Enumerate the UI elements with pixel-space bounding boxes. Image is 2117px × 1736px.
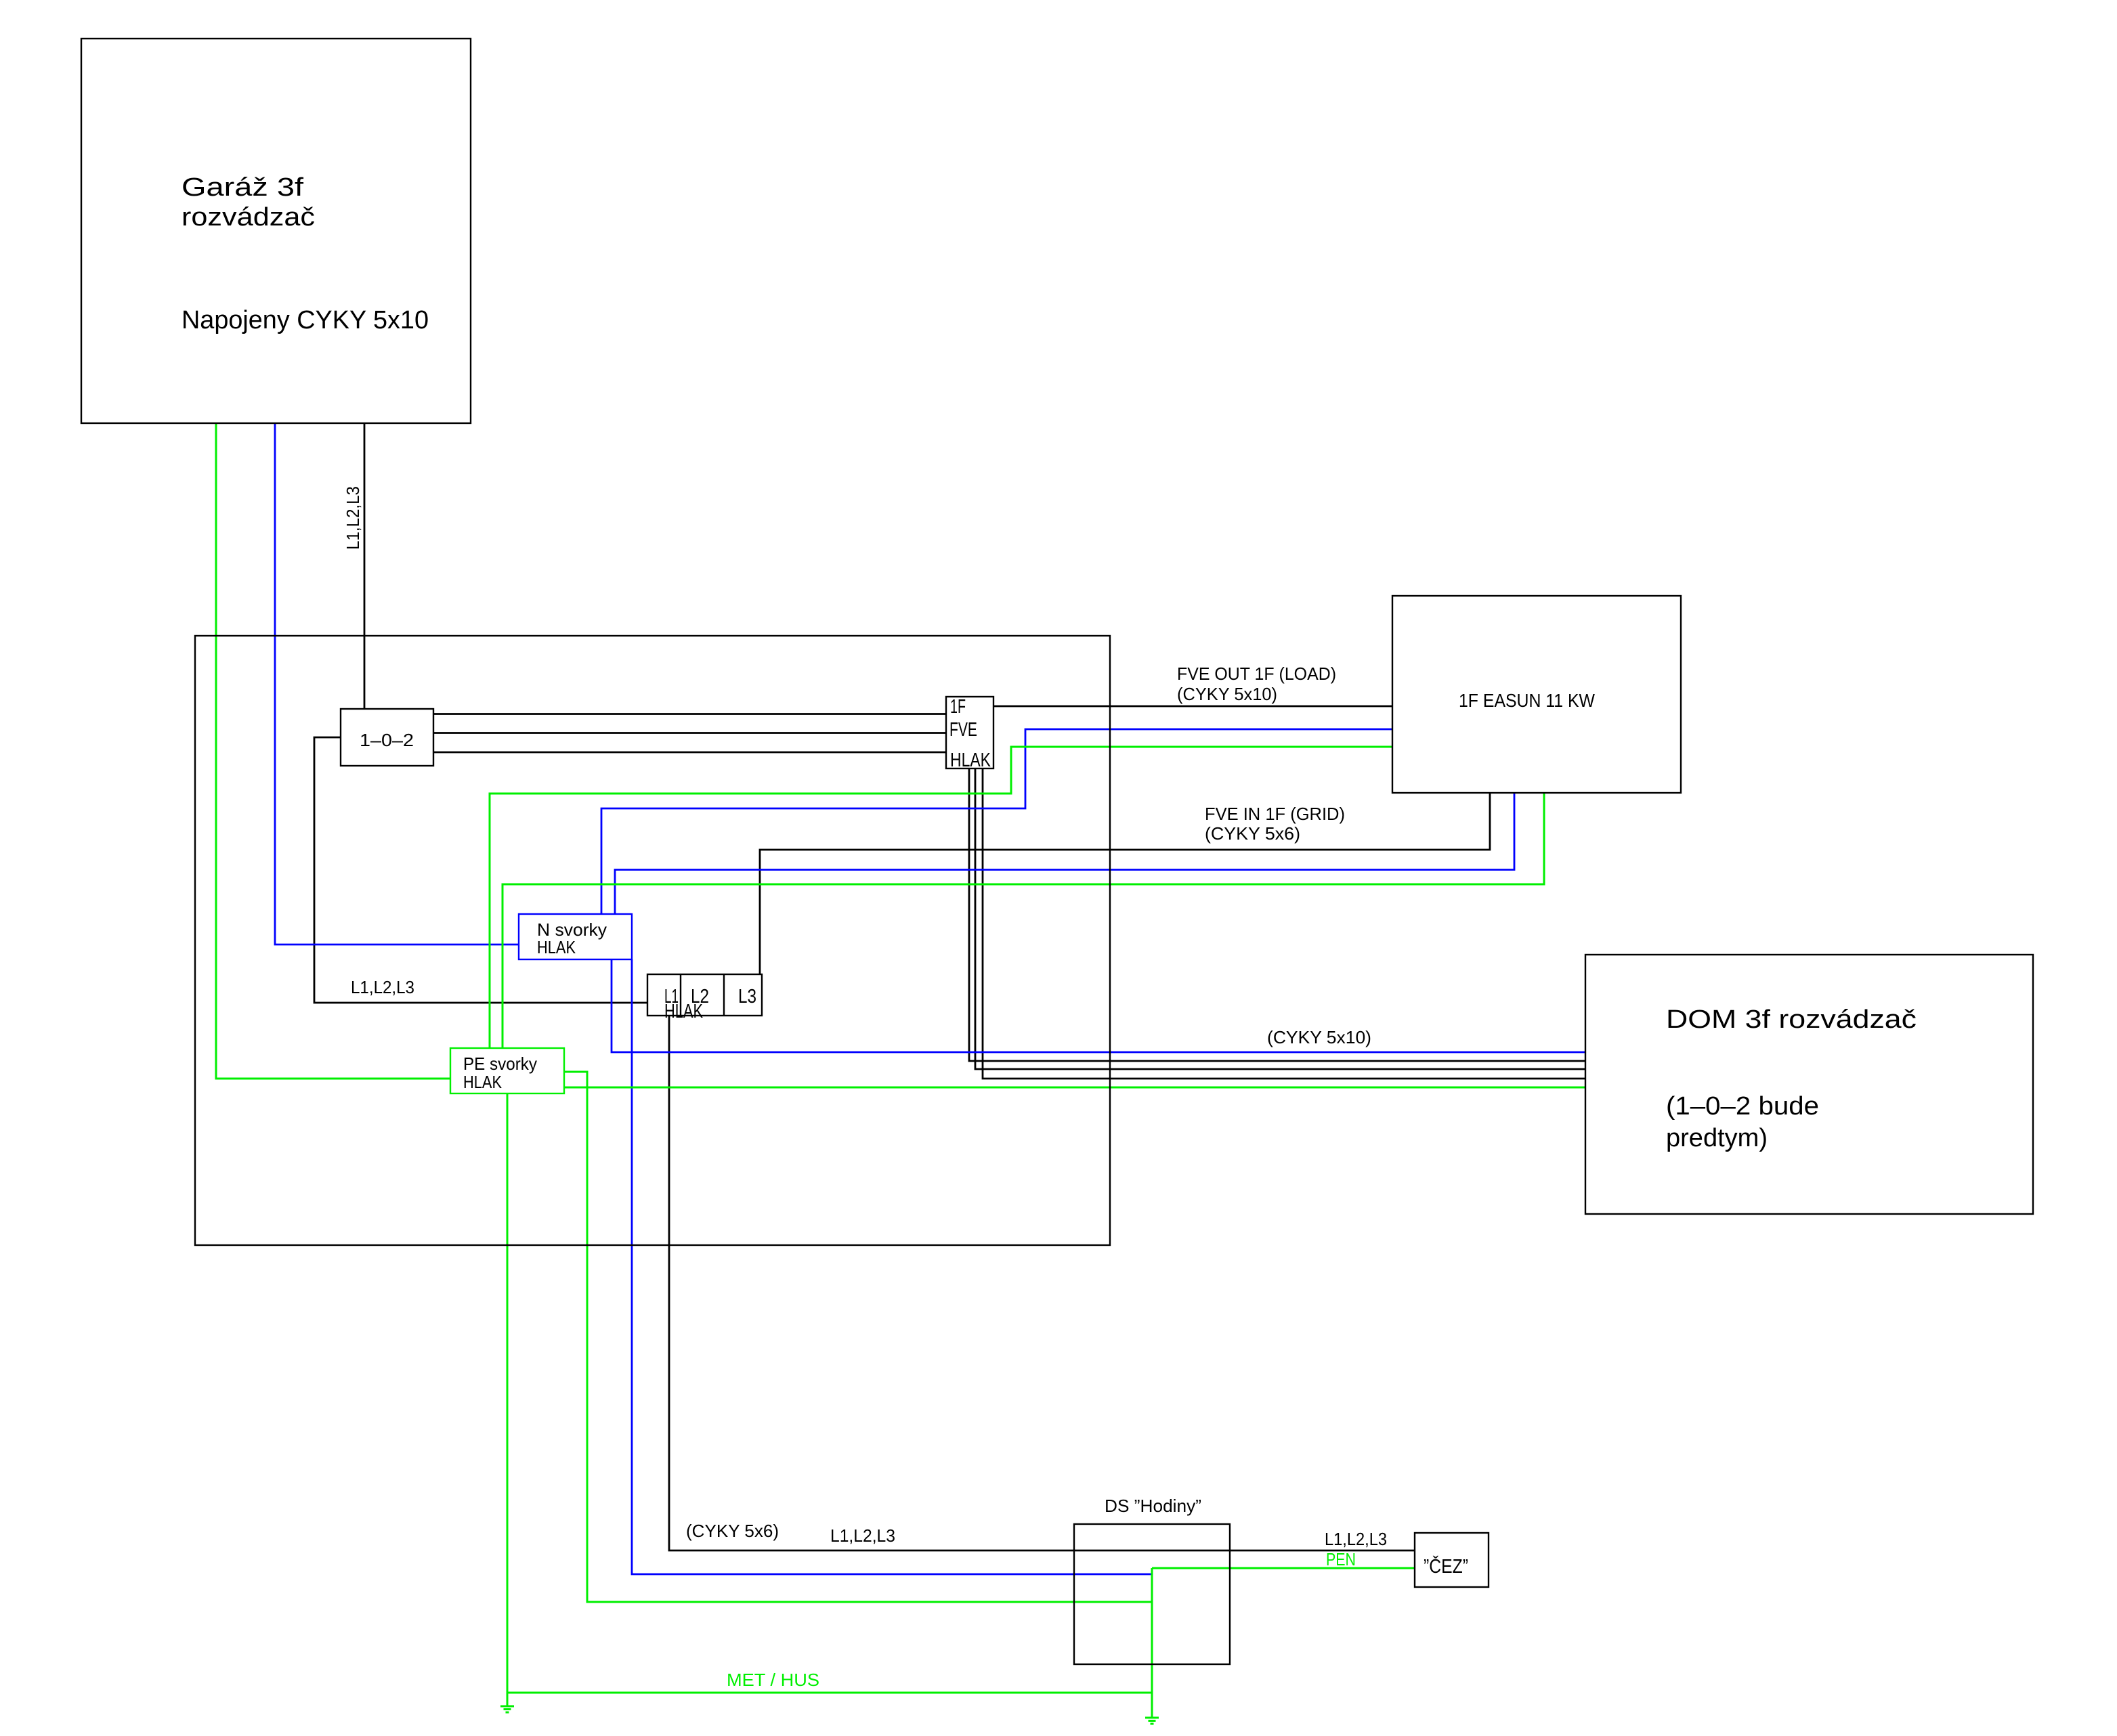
svg-text:PE svorky: PE svorky [463,1054,537,1074]
svg-text:DOM 3f rozvádzač: DOM 3f rozvádzač [1666,1005,1917,1034]
svg-text:1F: 1F [950,696,966,718]
svg-text:”ČEZ”: ”ČEZ” [1424,1555,1468,1578]
svg-text:HLAK: HLAK [950,750,991,771]
svg-text:DS ”Hodiny”: DS ”Hodiny” [1105,1496,1201,1516]
svg-text:1–0–2: 1–0–2 [360,730,414,750]
svg-text:1F EASUN 11 KW: 1F EASUN 11 KW [1459,690,1596,711]
svg-text:PEN: PEN [1326,1549,1356,1569]
svg-text:(CYKY 5x6): (CYKY 5x6) [686,1521,779,1541]
svg-text:L1,L2,L3: L1,L2,L3 [343,486,363,550]
svg-text:L1,L2,L3: L1,L2,L3 [1325,1529,1387,1549]
svg-text:Napojeny CYKY 5x10: Napojeny CYKY 5x10 [181,306,429,334]
svg-text:L1,L2,L3: L1,L2,L3 [830,1525,895,1546]
svg-text:L3: L3 [738,986,756,1007]
svg-text:HLAK: HLAK [664,1001,703,1022]
svg-text:HLAK: HLAK [463,1072,502,1092]
svg-text:L1,L2,L3: L1,L2,L3 [351,977,414,997]
svg-text:FVE IN 1F (GRID): FVE IN 1F (GRID) [1205,804,1345,824]
svg-text:FVE OUT 1F (LOAD): FVE OUT 1F (LOAD) [1177,664,1336,684]
svg-text:(CYKY 5x6): (CYKY 5x6) [1205,823,1300,844]
svg-text:MET / HUS: MET / HUS [727,1670,819,1690]
svg-text:(CYKY 5x10): (CYKY 5x10) [1267,1027,1371,1047]
svg-text:(1–0–2 bude: (1–0–2 bude [1666,1092,1819,1121]
svg-text:Garáž 3f: Garáž 3f [181,173,304,202]
svg-text:(CYKY 5x10): (CYKY 5x10) [1177,684,1277,704]
svg-text:FVE: FVE [949,719,977,741]
svg-text:rozvádzač: rozvádzač [181,203,315,232]
svg-text:HLAK: HLAK [537,937,576,957]
svg-text:predtym): predtym) [1666,1124,1768,1152]
